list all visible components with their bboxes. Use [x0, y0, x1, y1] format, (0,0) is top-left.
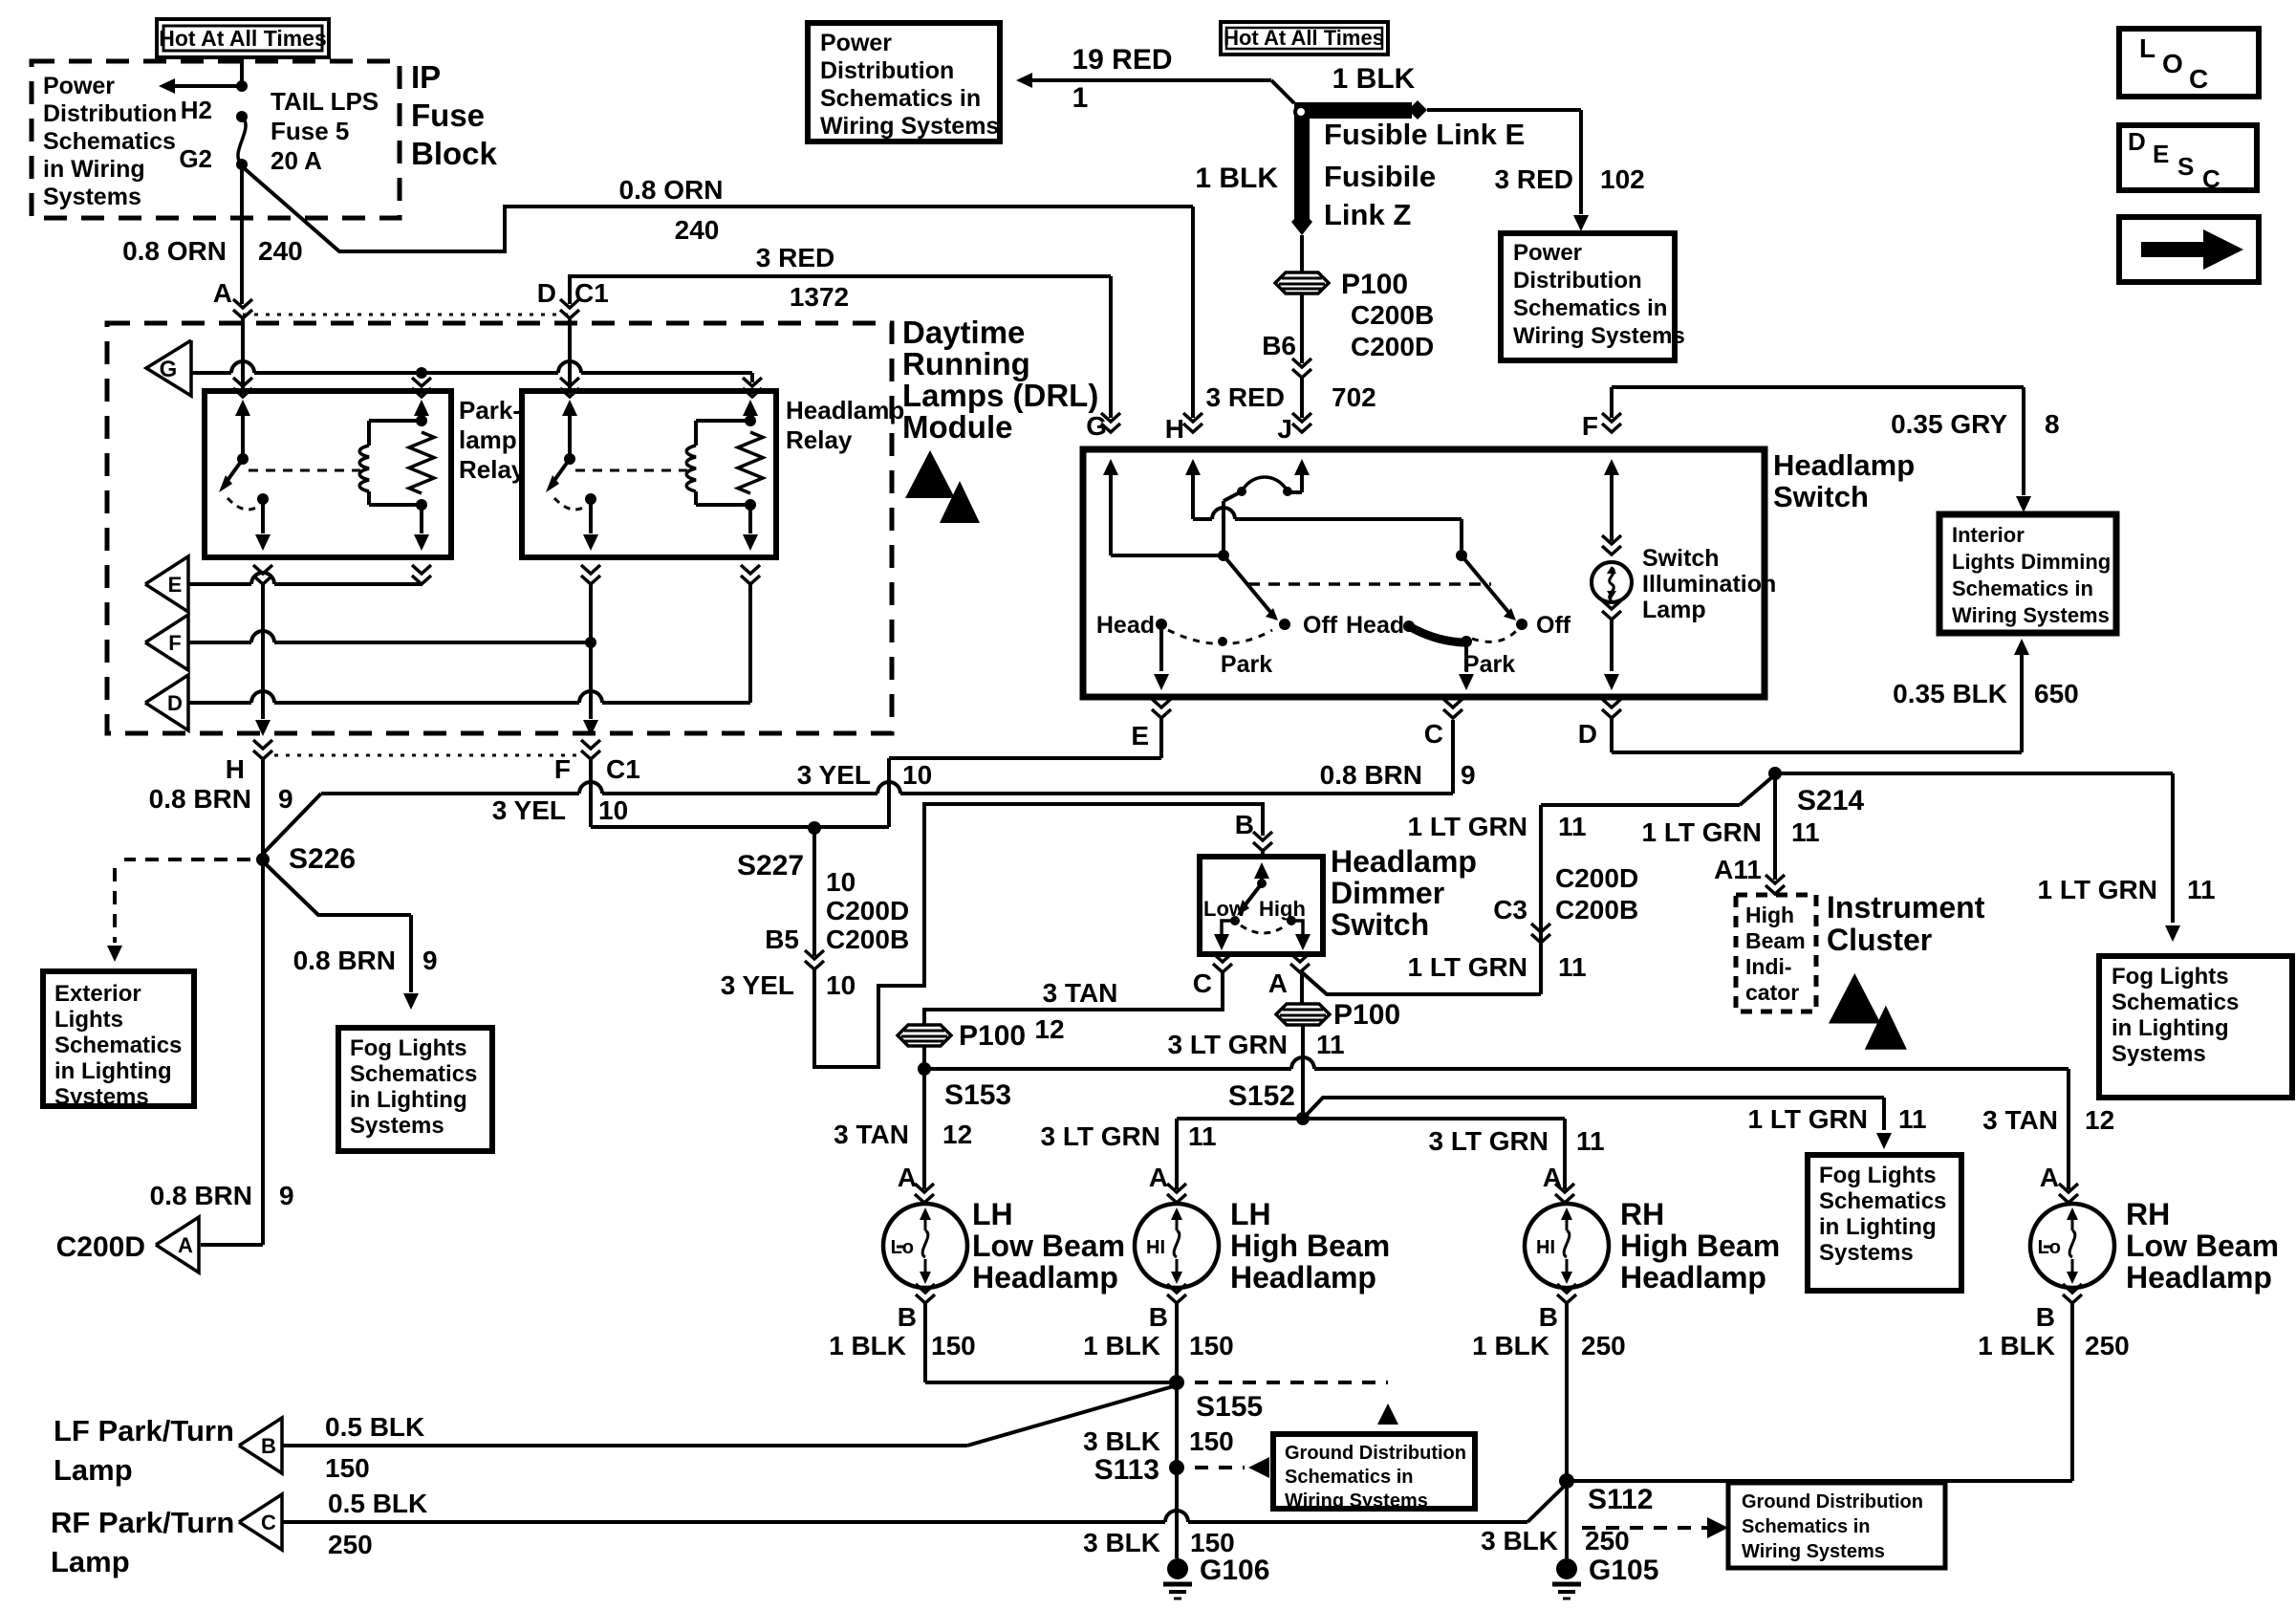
- svg-text:11: 11: [1316, 1030, 1345, 1059]
- svg-text:C200B: C200B: [826, 925, 909, 954]
- svg-text:1 LT GRN: 1 LT GRN: [1408, 812, 1527, 841]
- svg-text:H: H: [226, 754, 245, 784]
- svg-text:Distribution: Distribution: [820, 57, 954, 84]
- svg-text:Schematics: Schematics: [2112, 990, 2239, 1015]
- svg-text:3 BLK: 3 BLK: [1083, 1426, 1160, 1456]
- svg-text:0.8 ORN: 0.8 ORN: [619, 175, 724, 205]
- svg-text:11: 11: [1558, 812, 1587, 841]
- svg-text:0.8 BRN: 0.8 BRN: [293, 946, 396, 975]
- svg-text:Running: Running: [902, 346, 1030, 381]
- svg-text:250: 250: [2085, 1331, 2130, 1360]
- svg-text:Lights Dimming: Lights Dimming: [1952, 550, 2111, 574]
- svg-text:High Beam: High Beam: [1620, 1229, 1780, 1263]
- svg-text:Cluster: Cluster: [1827, 923, 1932, 957]
- svg-text:11: 11: [1188, 1121, 1217, 1151]
- svg-text:Distribution: Distribution: [1513, 268, 1642, 294]
- svg-text:High: High: [1259, 897, 1306, 921]
- svg-text:9: 9: [279, 1181, 294, 1210]
- svg-text:1 LT GRN: 1 LT GRN: [2038, 875, 2157, 904]
- svg-text:Block: Block: [411, 136, 498, 171]
- svg-text:Low Beam: Low Beam: [972, 1229, 1125, 1263]
- svg-text:0.8 ORN: 0.8 ORN: [122, 236, 227, 266]
- svg-text:H2: H2: [181, 96, 212, 124]
- svg-text:Park-: Park-: [459, 396, 521, 424]
- svg-text:P100: P100: [1333, 999, 1400, 1031]
- svg-text:O: O: [2162, 49, 2183, 78]
- svg-text:Lamps (DRL): Lamps (DRL): [902, 378, 1098, 413]
- svg-text:A: A: [1268, 968, 1288, 998]
- svg-text:3 BLK: 3 BLK: [1481, 1526, 1558, 1556]
- svg-text:1 BLK: 1 BLK: [829, 1331, 906, 1360]
- svg-text:250: 250: [1585, 1526, 1630, 1556]
- svg-text:250: 250: [1581, 1331, 1626, 1360]
- svg-text:LH: LH: [1230, 1197, 1271, 1231]
- svg-text:150: 150: [931, 1331, 976, 1360]
- svg-text:Ground Distribution: Ground Distribution: [1285, 1443, 1466, 1464]
- svg-text:Headlamp: Headlamp: [1331, 844, 1477, 879]
- svg-text:102: 102: [1600, 164, 1645, 194]
- svg-text:C200B: C200B: [1351, 300, 1434, 330]
- svg-text:150: 150: [1189, 1426, 1234, 1456]
- svg-text:D: D: [167, 691, 183, 715]
- svg-text:Headlamp: Headlamp: [1620, 1260, 1766, 1295]
- svg-text:A: A: [178, 1233, 193, 1257]
- svg-text:1 BLK: 1 BLK: [1332, 63, 1416, 95]
- svg-text:A: A: [898, 1163, 917, 1192]
- svg-text:3 TAN: 3 TAN: [1043, 978, 1118, 1008]
- svg-text:S152: S152: [1228, 1080, 1295, 1112]
- svg-text:Lamp: Lamp: [51, 1545, 130, 1578]
- svg-text:Headlamp: Headlamp: [1773, 448, 1915, 482]
- svg-text:Illumination: Illumination: [1642, 571, 1776, 598]
- svg-text:Switch: Switch: [1773, 480, 1869, 513]
- svg-text:Distribution: Distribution: [43, 100, 177, 127]
- svg-text:S226: S226: [289, 843, 356, 875]
- svg-text:F: F: [554, 754, 571, 784]
- svg-text:Schematics in: Schematics in: [1742, 1516, 1871, 1537]
- svg-text:High: High: [1745, 903, 1794, 927]
- svg-text:J: J: [1277, 414, 1292, 444]
- svg-text:Fuse: Fuse: [411, 98, 485, 133]
- svg-text:1: 1: [1072, 82, 1089, 114]
- svg-text:S: S: [2177, 152, 2194, 181]
- svg-text:S112: S112: [1588, 1484, 1653, 1515]
- svg-text:250: 250: [328, 1530, 373, 1559]
- svg-text:0.5 BLK: 0.5 BLK: [325, 1412, 424, 1442]
- svg-text:B5: B5: [765, 925, 799, 954]
- svg-text:9: 9: [422, 946, 438, 975]
- svg-text:3 RED: 3 RED: [1206, 382, 1285, 412]
- svg-text:Headlamp: Headlamp: [1230, 1260, 1376, 1295]
- svg-text:3 YEL: 3 YEL: [492, 795, 566, 825]
- svg-text:Hot At All Times: Hot At All Times: [1224, 26, 1384, 50]
- svg-text:Schematics: Schematics: [1819, 1188, 1946, 1214]
- svg-text:1372: 1372: [790, 282, 849, 312]
- svg-text:3 YEL: 3 YEL: [721, 970, 794, 1000]
- svg-text:Wiring Systems: Wiring Systems: [1952, 603, 2110, 627]
- svg-text:Park: Park: [1221, 651, 1272, 678]
- svg-text:0.8 BRN: 0.8 BRN: [149, 784, 251, 814]
- svg-text:Headlamp: Headlamp: [2126, 1260, 2272, 1295]
- svg-text:Head: Head: [1346, 612, 1404, 639]
- svg-text:Lamp: Lamp: [54, 1453, 133, 1487]
- svg-text:8: 8: [2045, 409, 2060, 439]
- svg-text:Fusibile: Fusibile: [1324, 160, 1436, 193]
- svg-text:1 LT GRN: 1 LT GRN: [1408, 952, 1527, 982]
- svg-text:cator: cator: [1745, 980, 1799, 1005]
- svg-text:3 LT GRN: 3 LT GRN: [1041, 1121, 1160, 1151]
- svg-text:240: 240: [675, 215, 720, 245]
- svg-text:Systems: Systems: [1819, 1240, 1914, 1266]
- svg-text:High Beam: High Beam: [1230, 1229, 1390, 1263]
- svg-text:A: A: [213, 278, 232, 308]
- svg-text:150: 150: [325, 1453, 370, 1483]
- svg-text:Wiring Systems: Wiring Systems: [1742, 1541, 1885, 1562]
- svg-text:Power: Power: [1513, 240, 1582, 266]
- svg-text:S227: S227: [737, 850, 804, 881]
- svg-text:C: C: [1424, 719, 1443, 749]
- svg-text:Schematics: Schematics: [43, 128, 176, 155]
- svg-text:Systems: Systems: [54, 1084, 149, 1110]
- svg-text:S155: S155: [1196, 1391, 1263, 1423]
- svg-text:S214: S214: [1797, 785, 1864, 816]
- svg-text:3 RED: 3 RED: [756, 243, 834, 272]
- svg-text:Power: Power: [43, 73, 115, 99]
- svg-text:TAIL LPS: TAIL LPS: [271, 87, 379, 116]
- svg-text:Daytime: Daytime: [902, 315, 1025, 350]
- svg-text:B: B: [2036, 1302, 2055, 1332]
- svg-text:11: 11: [1558, 952, 1587, 982]
- svg-text:11: 11: [1791, 817, 1820, 847]
- svg-text:11: 11: [2187, 875, 2216, 904]
- svg-text:P100: P100: [959, 1020, 1026, 1052]
- svg-text:702: 702: [1332, 382, 1376, 412]
- svg-text:RF Park/Turn: RF Park/Turn: [51, 1506, 234, 1539]
- svg-text:Ground Distribution: Ground Distribution: [1742, 1491, 1923, 1512]
- svg-text:Dimmer: Dimmer: [1331, 876, 1444, 910]
- svg-text:Schematics in: Schematics in: [1285, 1467, 1414, 1488]
- svg-text:11: 11: [1576, 1126, 1605, 1156]
- svg-text:LF Park/Turn: LF Park/Turn: [54, 1414, 234, 1447]
- svg-text:1 BLK: 1 BLK: [1083, 1331, 1160, 1360]
- svg-text:Relay: Relay: [459, 455, 526, 484]
- svg-text:C: C: [2189, 64, 2208, 94]
- svg-text:C200D: C200D: [1555, 863, 1638, 893]
- svg-text:C: C: [261, 1511, 276, 1534]
- svg-text:Link Z: Link Z: [1324, 198, 1411, 231]
- svg-text:1 LT GRN: 1 LT GRN: [1748, 1104, 1868, 1134]
- svg-text:Park: Park: [1463, 651, 1515, 678]
- svg-text:Hot At All Times: Hot At All Times: [159, 26, 327, 51]
- svg-text:B: B: [1539, 1302, 1558, 1332]
- svg-text:in Lighting: in Lighting: [2112, 1015, 2229, 1041]
- svg-text:Wiring Systems: Wiring Systems: [1285, 1490, 1428, 1512]
- svg-text:Schematics in: Schematics in: [820, 85, 981, 112]
- svg-text:S113: S113: [1094, 1454, 1159, 1486]
- svg-text:Beam: Beam: [1745, 928, 1806, 953]
- svg-text:E: E: [2153, 140, 2169, 168]
- svg-text:Fog Lights: Fog Lights: [350, 1035, 467, 1061]
- svg-text:9: 9: [1461, 760, 1476, 790]
- svg-text:G2: G2: [179, 144, 212, 173]
- svg-text:3 LT GRN: 3 LT GRN: [1168, 1030, 1288, 1059]
- svg-text:G105: G105: [1589, 1555, 1658, 1586]
- svg-text:in Lighting: in Lighting: [54, 1058, 172, 1084]
- svg-text:Wiring Systems: Wiring Systems: [820, 113, 999, 140]
- svg-text:C1: C1: [606, 754, 640, 784]
- svg-text:LH: LH: [972, 1197, 1013, 1231]
- svg-text:A: A: [1543, 1163, 1562, 1192]
- svg-text:0.8 BRN: 0.8 BRN: [150, 1181, 252, 1210]
- svg-text:20 A: 20 A: [271, 146, 322, 175]
- svg-text:Indi-: Indi-: [1745, 954, 1792, 979]
- svg-text:Low: Low: [1203, 897, 1246, 921]
- svg-text:0.35 GRY: 0.35 GRY: [1891, 409, 2007, 439]
- svg-text:Schematics in: Schematics in: [1513, 295, 1667, 321]
- svg-text:C: C: [2202, 164, 2220, 193]
- svg-text:C: C: [1193, 968, 1212, 998]
- svg-text:0.5 BLK: 0.5 BLK: [328, 1489, 427, 1518]
- svg-text:Headlamp: Headlamp: [972, 1260, 1118, 1295]
- svg-text:A11: A11: [1714, 855, 1762, 884]
- svg-text:D: D: [537, 278, 556, 308]
- svg-text:150: 150: [1190, 1528, 1235, 1557]
- svg-text:3 TAN: 3 TAN: [834, 1120, 909, 1149]
- svg-text:Off: Off: [1536, 612, 1571, 639]
- svg-text:Switch: Switch: [1331, 907, 1429, 942]
- svg-text:19 RED: 19 RED: [1072, 44, 1172, 76]
- svg-text:B6: B6: [1262, 331, 1296, 360]
- svg-text:240: 240: [258, 236, 303, 266]
- svg-text:C200D: C200D: [826, 896, 909, 925]
- svg-text:10: 10: [826, 970, 856, 1000]
- svg-text:D: D: [2128, 127, 2146, 156]
- svg-text:C200B: C200B: [1555, 895, 1638, 925]
- svg-text:RH: RH: [2126, 1197, 2170, 1231]
- svg-text:1 LT GRN: 1 LT GRN: [1642, 817, 1762, 847]
- svg-text:Systems: Systems: [350, 1113, 444, 1139]
- svg-text:S153: S153: [944, 1079, 1011, 1111]
- svg-text:Instrument: Instrument: [1827, 890, 1985, 925]
- svg-text:9: 9: [278, 784, 293, 814]
- svg-text:in Lighting: in Lighting: [1819, 1214, 1937, 1240]
- svg-text:C1: C1: [574, 278, 609, 308]
- svg-text:Systems: Systems: [2112, 1041, 2206, 1067]
- svg-text:10: 10: [826, 867, 856, 897]
- svg-text:11: 11: [1898, 1104, 1927, 1134]
- svg-text:Schematics: Schematics: [54, 1033, 182, 1058]
- svg-text:Wiring Systems: Wiring Systems: [1513, 323, 1685, 349]
- svg-text:in Wiring: in Wiring: [43, 156, 145, 183]
- svg-text:Module: Module: [902, 409, 1012, 445]
- svg-text:F: F: [168, 631, 181, 655]
- svg-text:B: B: [261, 1434, 276, 1458]
- svg-text:3 BLK: 3 BLK: [1083, 1528, 1160, 1557]
- svg-text:L: L: [2139, 33, 2155, 63]
- svg-text:1 BLK: 1 BLK: [1978, 1331, 2055, 1360]
- svg-text:Systems: Systems: [43, 184, 141, 210]
- svg-text:G: G: [1086, 411, 1107, 441]
- svg-text:Fusible Link E: Fusible Link E: [1324, 118, 1525, 151]
- svg-text:Fog Lights: Fog Lights: [1819, 1163, 1937, 1188]
- svg-text:10: 10: [902, 760, 932, 790]
- svg-text:C200D: C200D: [56, 1231, 145, 1263]
- svg-text:12: 12: [1034, 1014, 1064, 1044]
- svg-text:Relay: Relay: [786, 425, 853, 454]
- svg-text:0.8 BRN: 0.8 BRN: [1320, 760, 1422, 790]
- svg-text:A: A: [1149, 1163, 1168, 1192]
- svg-text:Switch: Switch: [1642, 545, 1720, 572]
- svg-text:10: 10: [598, 795, 628, 825]
- svg-text:D: D: [1578, 719, 1597, 749]
- svg-text:C200D: C200D: [1351, 332, 1434, 361]
- svg-text:12: 12: [2085, 1105, 2114, 1135]
- svg-text:IP: IP: [411, 59, 441, 95]
- svg-text:Schematics in: Schematics in: [1952, 577, 2093, 600]
- svg-text:P100: P100: [1341, 269, 1408, 300]
- svg-text:RH: RH: [1620, 1197, 1664, 1231]
- svg-text:3 LT GRN: 3 LT GRN: [1429, 1126, 1549, 1156]
- svg-text:650: 650: [2034, 679, 2079, 708]
- svg-text:G: G: [160, 357, 178, 382]
- svg-text:Fuse 5: Fuse 5: [271, 117, 349, 145]
- svg-text:Schematics: Schematics: [350, 1061, 477, 1087]
- svg-text:Head: Head: [1096, 612, 1155, 639]
- svg-text:B: B: [1235, 810, 1254, 839]
- svg-text:Interior: Interior: [1952, 523, 2025, 547]
- svg-text:B: B: [1149, 1302, 1168, 1332]
- svg-text:Lights: Lights: [54, 1007, 123, 1033]
- svg-text:lamp: lamp: [459, 425, 517, 454]
- svg-text:Fog Lights: Fog Lights: [2112, 964, 2229, 990]
- svg-text:150: 150: [1189, 1331, 1234, 1360]
- svg-text:E: E: [1131, 721, 1149, 751]
- svg-text:0.35 BLK: 0.35 BLK: [1893, 679, 2007, 708]
- svg-text:Low Beam: Low Beam: [2126, 1229, 2279, 1263]
- svg-text:Off: Off: [1303, 612, 1338, 639]
- svg-text:Headlamp: Headlamp: [786, 396, 904, 424]
- svg-text:B: B: [898, 1302, 917, 1332]
- svg-text:Exterior: Exterior: [54, 981, 141, 1007]
- svg-text:1 BLK: 1 BLK: [1195, 163, 1278, 194]
- svg-text:Power: Power: [820, 30, 892, 56]
- svg-text:H: H: [1165, 414, 1184, 444]
- svg-text:3 RED: 3 RED: [1495, 164, 1573, 194]
- svg-text:G106: G106: [1200, 1555, 1269, 1586]
- svg-text:E: E: [168, 573, 183, 597]
- svg-text:Lamp: Lamp: [1642, 597, 1706, 623]
- svg-text:F: F: [1582, 411, 1598, 441]
- svg-text:3 YEL: 3 YEL: [797, 760, 871, 790]
- svg-text:C3: C3: [1493, 895, 1527, 925]
- svg-text:12: 12: [942, 1120, 972, 1149]
- svg-text:3 TAN: 3 TAN: [1982, 1105, 2058, 1135]
- svg-text:in Lighting: in Lighting: [350, 1087, 467, 1113]
- svg-text:1 BLK: 1 BLK: [1472, 1331, 1549, 1360]
- svg-text:A: A: [2040, 1163, 2059, 1192]
